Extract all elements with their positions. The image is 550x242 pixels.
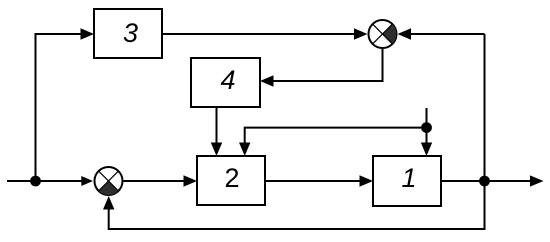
node C: dot on output line <box>479 176 490 187</box>
wire: S2 output into block 2 <box>124 180 185 182</box>
block 4 <box>191 58 260 107</box>
wire: block 4 output down into block 2 top <box>216 107 218 143</box>
wire: block 2 output into block 1 <box>265 180 360 182</box>
summing junction S2 (bottom left, south quadrant filled) <box>95 167 123 195</box>
wire: block 1 output to system output <box>441 180 531 182</box>
svg-text:3: 3 <box>123 18 138 48</box>
node A: branch dot on input line <box>30 176 41 187</box>
svg-text:2: 2 <box>224 163 239 193</box>
wire: feedback from node C down, left, and up into S2 bottom <box>109 181 485 229</box>
block 1 <box>373 156 441 206</box>
wire: input line into summing junction S2 <box>7 180 83 182</box>
svg-text:4: 4 <box>220 65 235 95</box>
summing junction S1 (top right, east quadrant filled) <box>369 20 397 48</box>
svg-text:1: 1 <box>401 163 416 193</box>
block 2 <box>197 156 265 205</box>
wire: stub input from top into node B <box>426 108 428 128</box>
wire: block 3 output to summing junction S1 <box>162 33 355 35</box>
block 3 <box>94 9 162 58</box>
wire: from node B down into block 1 top <box>426 128 428 143</box>
wire: feedback from node C up to S1 right input <box>484 34 486 181</box>
wire: branch up from node A to top rail <box>36 34 82 181</box>
wire: S1 output down and left into block 4 <box>273 49 383 81</box>
wire: right feedback into S1 (from vertical rail x=484.5) <box>411 33 485 35</box>
wire: from node B left then down into block 2 top <box>245 128 427 143</box>
node B: dot above block 1 <box>421 122 432 133</box>
